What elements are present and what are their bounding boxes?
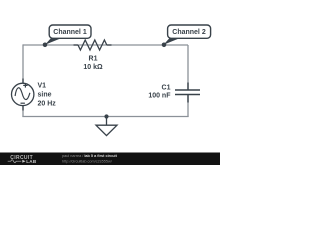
svg-text:C1: C1 xyxy=(162,85,171,92)
node Channel 1 probe dot xyxy=(43,43,48,48)
svg-text:10 kΩ: 10 kΩ xyxy=(83,64,103,71)
wire left vertical lower xyxy=(22,105,24,117)
footer bar xyxy=(0,153,220,166)
voltage source V1 xyxy=(12,79,34,111)
svg-text:Channel 1: Channel 1 xyxy=(53,29,87,36)
Channel 2 callout tail xyxy=(164,38,180,45)
wire right vertical lower xyxy=(187,95,189,118)
svg-text:http://circuitlab.com/c2s555w/: http://circuitlab.com/c2s555w/ xyxy=(62,159,113,163)
Channel 1 callout tail xyxy=(45,38,61,45)
svg-text:20 Hz: 20 Hz xyxy=(38,101,57,108)
resistor R1 xyxy=(74,40,112,50)
wire bottom horizontal xyxy=(22,116,188,118)
svg-text:100 nF: 100 nF xyxy=(148,93,171,100)
footer logo arrow xyxy=(22,160,25,163)
svg-text:paul narrea / lab 5 a first ci: paul narrea / lab 5 a first circuit xyxy=(62,154,118,158)
Channel 1 callout box xyxy=(49,25,91,38)
wire right vertical upper xyxy=(187,45,189,90)
wire top horizontal xyxy=(23,44,188,46)
svg-text:V1: V1 xyxy=(38,82,47,89)
wire left vertical upper xyxy=(22,44,24,83)
ground xyxy=(96,117,117,136)
svg-text:sine: sine xyxy=(38,91,52,98)
capacitor C1 xyxy=(175,83,200,103)
svg-text:R1: R1 xyxy=(89,56,98,63)
ground junction dot xyxy=(104,114,108,118)
footer logo waveform xyxy=(8,160,22,163)
node Channel 2 probe dot xyxy=(162,43,167,48)
Channel 2 callout box xyxy=(168,25,211,38)
svg-text:Channel 2: Channel 2 xyxy=(172,29,206,36)
svg-text:LAB: LAB xyxy=(26,159,37,164)
